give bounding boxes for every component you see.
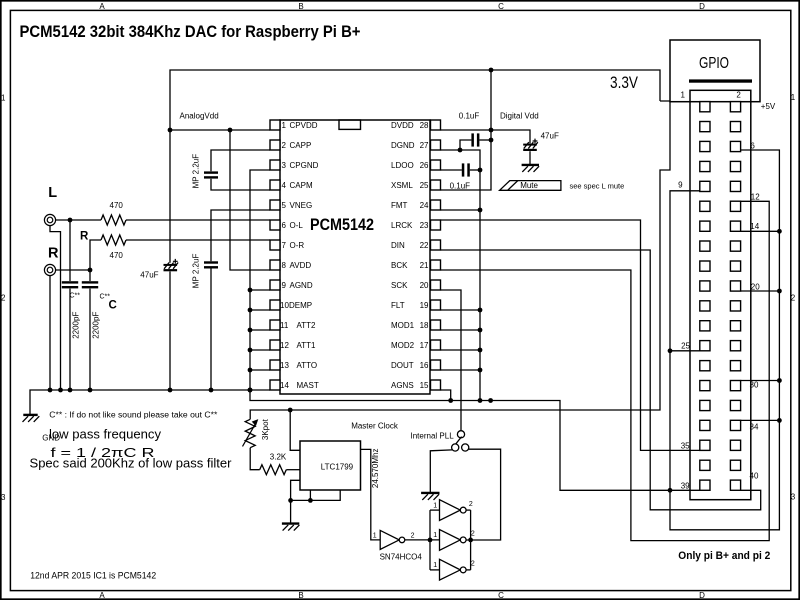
wire: pin9 AGND stub bbox=[250, 289, 270, 291]
wire: LTC GND/DIV bbox=[291, 480, 300, 522]
svg-text:1: 1 bbox=[791, 93, 796, 102]
svg-text:1: 1 bbox=[433, 562, 437, 569]
svg-text:22: 22 bbox=[420, 241, 429, 250]
svg-text:35: 35 bbox=[681, 442, 690, 451]
svg-text:0.1uF: 0.1uF bbox=[450, 182, 471, 191]
ruler letters bottom bbox=[99, 591, 705, 600]
wire: LTC V+ bbox=[290, 410, 300, 450]
symbol: Mute flag bbox=[500, 181, 561, 191]
wire: U3A out to buffer inputs bbox=[405, 539, 440, 541]
U1 left pin boxes 1-14 bbox=[270, 120, 280, 390]
connector J1 GPIO box bbox=[670, 40, 760, 102]
svg-text:470: 470 bbox=[110, 201, 124, 210]
svg-text:B: B bbox=[298, 2, 303, 11]
svg-text:+5V: +5V bbox=[761, 102, 776, 111]
svg-text:MP 2.2uF: MP 2.2uF bbox=[192, 254, 201, 289]
svg-text:25: 25 bbox=[681, 342, 690, 351]
svg-text:R: R bbox=[80, 230, 89, 242]
svg-text:26: 26 bbox=[420, 161, 429, 170]
wire: pin11 ATT2 stub bbox=[250, 329, 270, 331]
svg-text:SCK: SCK bbox=[391, 281, 408, 290]
IC U2 LTC1799 bbox=[300, 441, 361, 490]
svg-text:Digital Vdd: Digital Vdd bbox=[500, 111, 539, 120]
ground symbol (analog bus) bbox=[23, 414, 37, 416]
svg-text:2: 2 bbox=[471, 531, 475, 538]
svg-text:23: 23 bbox=[420, 221, 429, 230]
wire: GPIO34 gnd bbox=[741, 419, 780, 421]
wire: pin28 DVDD rail bbox=[441, 130, 531, 143]
svg-text:Spec said 200Khz of low pass f: Spec said 200Khz of low pass filter bbox=[30, 456, 233, 471]
svg-text:7: 7 bbox=[282, 241, 287, 250]
svg-text:17: 17 bbox=[420, 341, 429, 350]
svg-text:470: 470 bbox=[110, 251, 124, 260]
connector J1 pin header outline bbox=[690, 90, 751, 499]
wire: LRCK net (pin23 to GPIO35) bbox=[441, 220, 701, 450]
svg-text:2: 2 bbox=[471, 561, 475, 568]
svg-text:DOUT: DOUT bbox=[391, 361, 414, 370]
svg-text:LTC1799: LTC1799 bbox=[321, 462, 354, 471]
svg-text:A: A bbox=[99, 2, 105, 11]
wire: pin18 MOD1 stub bbox=[441, 329, 481, 331]
svg-text:3: 3 bbox=[791, 493, 796, 502]
capacitor MP 2.2uF (VNEG) bbox=[204, 261, 218, 263]
gate U3C buffer middle bbox=[440, 530, 461, 551]
svg-text:Mute: Mute bbox=[520, 181, 538, 190]
U1 right pin labels bbox=[391, 121, 429, 390]
svg-text:12: 12 bbox=[751, 192, 760, 201]
svg-text:34: 34 bbox=[750, 423, 759, 432]
svg-text:B: B bbox=[298, 591, 303, 600]
svg-text:2: 2 bbox=[736, 91, 741, 100]
ground symbol (LTC) bbox=[282, 522, 299, 524]
wire: pin16 DOUT stub bbox=[441, 369, 481, 371]
svg-text:12nd APR 2015 IC1 is PCM51: 12nd APR 2015 IC1 is PCM5142 bbox=[30, 570, 156, 580]
wire: GPIO14 gnd bbox=[741, 230, 780, 232]
svg-text:28: 28 bbox=[420, 121, 429, 130]
svg-text:5: 5 bbox=[282, 201, 287, 210]
svg-text:L: L bbox=[48, 185, 57, 201]
svg-text:18: 18 bbox=[420, 321, 429, 330]
svg-text:19: 19 bbox=[420, 301, 429, 310]
svg-text:6: 6 bbox=[750, 142, 755, 151]
svg-text:R: R bbox=[48, 246, 59, 262]
svg-text:see spec L mute: see spec L mute bbox=[570, 181, 625, 190]
potentiometer 3Kpot bbox=[245, 419, 255, 447]
wire: DIN net (pin22 from GPIO40) bbox=[441, 250, 761, 510]
svg-text:FMT: FMT bbox=[391, 201, 408, 210]
wire: R line pin7 O-R bbox=[126, 239, 270, 241]
svg-text:D: D bbox=[699, 591, 705, 600]
svg-text:Master Clock: Master Clock bbox=[351, 421, 399, 430]
svg-text:11: 11 bbox=[280, 321, 289, 330]
svg-text:CAPM: CAPM bbox=[290, 181, 313, 190]
wire: 24.570Mhz clock out bbox=[361, 449, 381, 540]
wire: 3.3V rail outline box bbox=[170, 70, 660, 263]
svg-text:2: 2 bbox=[282, 141, 287, 150]
svg-text:4: 4 bbox=[282, 181, 287, 190]
wire: GPIO ground net bbox=[670, 150, 779, 530]
svg-text:2: 2 bbox=[1, 294, 6, 303]
svg-text:24: 24 bbox=[420, 201, 429, 210]
svg-text:1: 1 bbox=[433, 532, 437, 539]
svg-text:12: 12 bbox=[280, 341, 289, 350]
ruler letters top bbox=[99, 2, 705, 11]
svg-text:MOD1: MOD1 bbox=[391, 321, 415, 330]
svg-text:13: 13 bbox=[280, 361, 289, 370]
svg-text:1: 1 bbox=[433, 502, 437, 509]
svg-text:MP 2.2uF: MP 2.2uF bbox=[192, 154, 201, 189]
svg-text:20: 20 bbox=[751, 282, 760, 291]
wire: BCK net (pin21 to GPIO12) bbox=[441, 201, 770, 540]
svg-text:2200pF: 2200pF bbox=[71, 312, 80, 339]
svg-text:1: 1 bbox=[1, 93, 6, 102]
wire: pin19 FLT stub bbox=[441, 309, 481, 311]
svg-text:1: 1 bbox=[373, 533, 377, 540]
svg-text:1: 1 bbox=[681, 91, 686, 100]
resistor 3.2K bbox=[250, 448, 260, 470]
svg-text:BCK: BCK bbox=[391, 261, 408, 270]
svg-text:40: 40 bbox=[750, 471, 759, 480]
capacitor 2200pF (L) bbox=[69, 220, 71, 281]
wire: 3.3V to GPIO pin1 bbox=[660, 100, 690, 102]
svg-text:3: 3 bbox=[282, 161, 287, 170]
wire: switch right to oscillator out bbox=[466, 449, 501, 540]
ruler numbers right bbox=[791, 93, 796, 502]
svg-text:GPIO: GPIO bbox=[699, 55, 729, 72]
svg-text:2: 2 bbox=[411, 533, 415, 540]
capacitor 0.1uF (DVDD decoupling) bbox=[471, 133, 474, 146]
svg-text:8: 8 bbox=[282, 261, 287, 270]
svg-text:2: 2 bbox=[791, 293, 796, 302]
svg-text:VNEG: VNEG bbox=[290, 201, 313, 210]
svg-text:2: 2 bbox=[469, 501, 473, 508]
gate U3B buffer top bbox=[440, 500, 461, 521]
wire: pin24 FMT stub bbox=[441, 209, 481, 211]
wire: pin13 ATTO stub bbox=[250, 369, 270, 371]
wire: R jack to cap column bbox=[56, 269, 90, 271]
svg-text:3.2K: 3.2K bbox=[270, 452, 287, 461]
svg-text:C: C bbox=[498, 2, 504, 11]
svg-text:20: 20 bbox=[420, 281, 429, 290]
wire: pin2 CAPP to cap bbox=[211, 150, 270, 171]
wire: AnalogVdd to pin1 CPVDD bbox=[170, 129, 270, 131]
gate U3D buffer bottom bbox=[440, 559, 461, 580]
svg-text:C** : If do not like sound ple: C** : If do not like sound please take o… bbox=[49, 411, 217, 420]
svg-text:AGNS: AGNS bbox=[391, 381, 414, 390]
resistor 470 (L) bbox=[101, 215, 126, 225]
connector L RCA jack bbox=[44, 214, 55, 225]
gate U3A input inverter bbox=[380, 530, 399, 549]
capacitor 2200pF (R) bbox=[82, 281, 98, 283]
svg-text:Internal PLL: Internal PLL bbox=[411, 432, 455, 441]
svg-text:DIN: DIN bbox=[391, 241, 405, 250]
wire: SCK net (pin20 to clock switch) bbox=[441, 290, 462, 431]
svg-text:C**: C** bbox=[70, 293, 81, 300]
wire: pin10 DEMP stub bbox=[250, 309, 270, 311]
U1 left pin labels bbox=[280, 121, 319, 390]
ruler numbers left bbox=[1, 93, 6, 502]
svg-text:O-R: O-R bbox=[290, 241, 305, 250]
svg-text:2200pF: 2200pF bbox=[91, 312, 100, 339]
capacitor 47uF (analog rail) bbox=[164, 264, 178, 266]
svg-text:30: 30 bbox=[750, 381, 759, 390]
wire: L jack shield bbox=[50, 226, 61, 390]
wire: XSML pull-up to 3.3V bbox=[441, 70, 492, 190]
capacitor MP 2.2uF (charge pump) bbox=[204, 171, 218, 173]
svg-text:O-L: O-L bbox=[290, 221, 304, 230]
svg-text:DEMP: DEMP bbox=[289, 301, 312, 310]
ground symbol (switch) bbox=[421, 492, 439, 494]
svg-text:LRCK: LRCK bbox=[391, 221, 413, 230]
wire: buffer outputs tied bbox=[466, 509, 471, 511]
svg-text:3: 3 bbox=[1, 493, 6, 502]
svg-text:C: C bbox=[498, 591, 504, 600]
svg-text:3.3V: 3.3V bbox=[610, 74, 638, 92]
wire: GPIO25 ground stub bbox=[670, 350, 700, 352]
svg-text:47uF: 47uF bbox=[541, 131, 559, 140]
svg-text:9: 9 bbox=[678, 181, 683, 190]
wire: pin27 DGND / config-low rail bbox=[441, 150, 481, 401]
wire: resistor to pin6 O-L bbox=[126, 219, 270, 221]
capacitor 0.1uF (LDO) bbox=[441, 169, 462, 171]
svg-text:16: 16 bbox=[420, 361, 429, 370]
wire: pin5 VNEG to cap bbox=[211, 210, 270, 261]
wire: pin3 CPGND down / ground bus branch bbox=[250, 170, 700, 490]
wire: AVDD branch to pin8 bbox=[230, 130, 270, 270]
svg-text:AnalogVdd: AnalogVdd bbox=[180, 111, 219, 120]
wire: cap to pin4 CAPM bbox=[211, 179, 270, 190]
svg-text:14: 14 bbox=[750, 222, 759, 231]
svg-text:MOD2: MOD2 bbox=[391, 341, 415, 350]
svg-text:XSML: XSML bbox=[391, 181, 413, 190]
svg-text:1: 1 bbox=[282, 121, 287, 130]
wire: GPIO20 gnd bbox=[741, 290, 780, 292]
svg-text:39: 39 bbox=[681, 481, 690, 490]
svg-text:3Kpot: 3Kpot bbox=[261, 418, 270, 440]
svg-text:25: 25 bbox=[420, 181, 429, 190]
svg-text:ATT1: ATT1 bbox=[297, 341, 317, 350]
svg-text:14: 14 bbox=[280, 381, 289, 390]
wire: 3.3V drop to LTC supply bbox=[250, 101, 670, 419]
ground symbol (47uF digital) bbox=[522, 164, 539, 166]
wire: switch left to ground bbox=[430, 450, 452, 492]
svg-text:15: 15 bbox=[420, 381, 429, 390]
svg-text:SN74HCO4: SN74HCO4 bbox=[380, 553, 423, 562]
svg-text:47uF: 47uF bbox=[140, 270, 158, 279]
wire: R jack shield bbox=[49, 276, 51, 390]
wire: pin12 ATT1 stub bbox=[250, 349, 270, 351]
svg-text:C: C bbox=[109, 300, 117, 312]
svg-text:low pass frequency: low pass frequency bbox=[49, 427, 162, 442]
svg-text:CPVDD: CPVDD bbox=[290, 121, 318, 130]
op-amp/IC U1 PCM5142 body bbox=[280, 120, 430, 394]
wire: L signal to resistor bbox=[56, 219, 101, 221]
wire: analog ground bus (pin14 MAST) bbox=[30, 390, 270, 414]
svg-text:AVDD: AVDD bbox=[290, 261, 312, 270]
svg-text:24.570Mhz: 24.570Mhz bbox=[371, 449, 380, 489]
svg-text:CPGND: CPGND bbox=[290, 161, 319, 170]
wire: pin15 AGNS drop bbox=[441, 390, 451, 401]
svg-text:ATT2: ATT2 bbox=[297, 321, 317, 330]
svg-text:CAPP: CAPP bbox=[290, 141, 312, 150]
svg-text:MAST: MAST bbox=[297, 381, 319, 390]
svg-text:D: D bbox=[699, 2, 705, 11]
svg-text:27: 27 bbox=[420, 141, 429, 150]
capacitor 47uF (digital rail) bbox=[523, 144, 537, 146]
J1 pin squares bbox=[700, 102, 741, 491]
svg-text:PCM5142: PCM5142 bbox=[310, 216, 374, 234]
svg-text:AGND: AGND bbox=[290, 281, 313, 290]
J1 pin number labels bbox=[678, 91, 760, 491]
svg-text:FLT: FLT bbox=[391, 301, 405, 310]
svg-text:21: 21 bbox=[420, 261, 429, 270]
svg-text:A: A bbox=[99, 591, 105, 600]
svg-text:6: 6 bbox=[282, 221, 287, 230]
wire: pin17 MOD2 stub bbox=[441, 349, 481, 351]
svg-text:DGND: DGND bbox=[391, 141, 415, 150]
svg-text:PCM5142 32bit 384Khz DAC for: PCM5142 32bit 384Khz DAC for Raspberry P… bbox=[20, 23, 361, 41]
svg-text:0.1uF: 0.1uF bbox=[459, 111, 480, 120]
wire: GPIO30 gnd bbox=[741, 380, 780, 382]
svg-text:LDOO: LDOO bbox=[391, 161, 414, 170]
svg-text:Only pi B+ and pi 2: Only pi B+ and pi 2 bbox=[678, 550, 770, 562]
U1 right pin boxes 15-28 bbox=[431, 120, 441, 390]
svg-text:DVDD: DVDD bbox=[391, 121, 414, 130]
svg-text:9: 9 bbox=[282, 281, 287, 290]
connector R RCA jack bbox=[44, 264, 55, 275]
svg-text:ATTO: ATTO bbox=[297, 361, 318, 370]
